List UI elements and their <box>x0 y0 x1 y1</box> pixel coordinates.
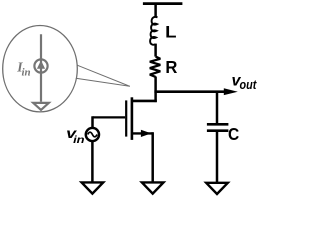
svg-text:C: C <box>228 124 239 144</box>
svg-text:R: R <box>165 57 177 77</box>
svg-text:out: out <box>240 77 257 92</box>
svg-text:in: in <box>22 67 31 79</box>
svg-text:L: L <box>165 23 176 42</box>
svg-text:in: in <box>73 135 85 146</box>
